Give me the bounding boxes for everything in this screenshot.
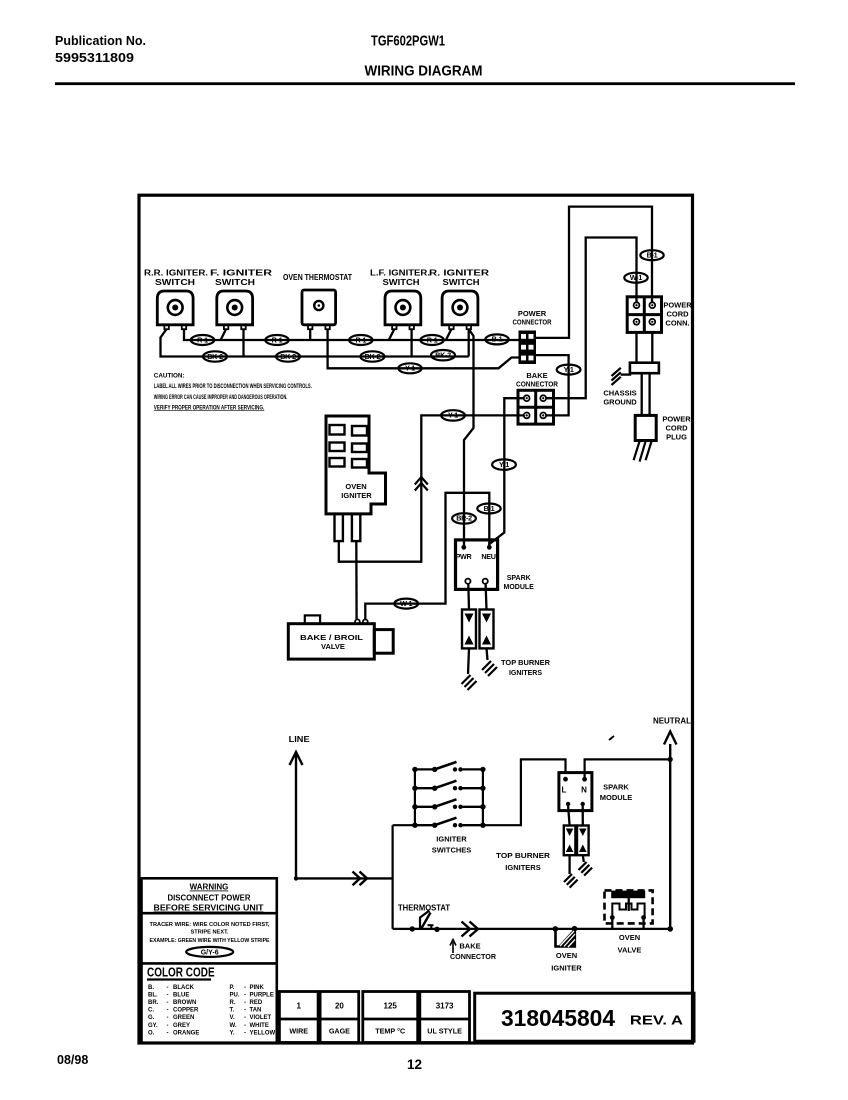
label chassis ground xyxy=(603,389,637,407)
wire igniter 2 to ground xyxy=(487,648,488,660)
spec table wire column xyxy=(279,992,318,1043)
svg-text:SWITCH: SWITCH xyxy=(383,278,420,287)
spec table temp column xyxy=(363,992,418,1043)
ground symbol 3 xyxy=(564,874,578,888)
svg-text:LABEL ALL WIRES PRIOR TO DISCO: LABEL ALL WIRES PRIOR TO DISCONNECTION W… xyxy=(154,383,312,390)
svg-text:125: 125 xyxy=(384,1002,398,1011)
svg-text:VERIFY PROPER OPERATION AFTER: VERIFY PROPER OPERATION AFTER SERVICING. xyxy=(154,404,265,411)
svg-text:PLUG: PLUG xyxy=(666,433,687,442)
svg-text:NEUTRAL: NEUTRAL xyxy=(653,717,691,726)
part number box 318045804 REV A xyxy=(475,993,694,1041)
svg-text:B.: B. xyxy=(148,985,154,991)
spark module U1 xyxy=(456,540,498,590)
svg-text:IGNITER: IGNITER xyxy=(436,835,467,844)
svg-text:TGF602PGW1: TGF602PGW1 xyxy=(371,33,445,50)
svg-text:Y-1: Y-1 xyxy=(448,411,458,420)
svg-text:W-1: W-1 xyxy=(630,273,642,282)
svg-text:POWER: POWER xyxy=(663,301,692,310)
igniter switch ladder right rail xyxy=(482,769,484,825)
svg-text:-: - xyxy=(244,1015,246,1021)
label spark module lower xyxy=(600,783,633,803)
svg-text:-: - xyxy=(244,1008,246,1014)
svg-text:W.: W. xyxy=(230,1023,237,1029)
label bake connector lower xyxy=(450,942,497,962)
wire ladder to spark module L xyxy=(483,759,566,825)
wire label Y-1 xyxy=(557,365,581,375)
svg-text:W-1: W-1 xyxy=(400,599,412,608)
svg-text:BK-2: BK-2 xyxy=(207,352,223,361)
bake broil valve V1 xyxy=(288,615,393,659)
svg-text:OVEN THERMOSTAT: OVEN THERMOSTAT xyxy=(283,273,352,282)
switch S4 L.R. igniter switch xyxy=(442,291,478,329)
svg-text:BL.: BL. xyxy=(148,992,158,998)
svg-text:C.: C. xyxy=(148,1008,154,1014)
svg-text:GY.: GY. xyxy=(148,1023,158,1029)
svg-text:BR-2: BR-2 xyxy=(456,514,472,523)
wire spark module to top burner igniters xyxy=(468,584,486,610)
wire label R-1 xyxy=(265,335,288,345)
node neutral junction xyxy=(668,757,673,762)
svg-text:20: 20 xyxy=(335,1002,344,1011)
wire label W-1 xyxy=(624,273,647,283)
warning text xyxy=(154,883,264,913)
wire label Y-1 xyxy=(492,459,516,469)
svg-text:Y-1: Y-1 xyxy=(499,460,509,469)
header rule xyxy=(55,82,795,85)
svg-text:-: - xyxy=(244,992,246,998)
svg-text:GREY: GREY xyxy=(173,1023,190,1029)
svg-text:GAGE: GAGE xyxy=(329,1027,350,1036)
svg-text:Y-1: Y-1 xyxy=(405,364,415,373)
tracer example oval G/Y-6 xyxy=(186,947,233,957)
svg-text:-: - xyxy=(244,1023,246,1029)
svg-text:IGNITERS: IGNITERS xyxy=(509,670,542,677)
svg-text:-: - xyxy=(167,992,169,998)
wire thermostat left pin to row1 xyxy=(309,329,311,340)
wire valve to spark module NEU via W-1 and B-1 xyxy=(365,493,489,619)
wire row 2 black bus xyxy=(161,329,469,357)
stray mark xyxy=(609,736,614,740)
wire label W-1 xyxy=(394,599,418,609)
wire rail to ladder xyxy=(393,824,415,826)
svg-text:OVEN: OVEN xyxy=(619,933,640,942)
svg-text:SPARK: SPARK xyxy=(603,783,629,792)
wire oven igniter to bake broil valve xyxy=(355,541,358,619)
wire S2 left pin to row1 xyxy=(221,329,227,340)
top burner igniter electrode 2 xyxy=(480,610,494,649)
svg-text:318045804: 318045804 xyxy=(501,1005,615,1031)
spec table gage column xyxy=(320,992,359,1043)
igniter switch rung 2 xyxy=(412,781,485,791)
svg-text:ORANGE: ORANGE xyxy=(173,1030,199,1036)
igniter switch rung 3 xyxy=(412,799,485,809)
svg-text:LINE: LINE xyxy=(289,735,310,744)
svg-text:CAUTION:: CAUTION: xyxy=(154,373,185,380)
svg-text:-: - xyxy=(244,985,246,991)
wire S4 left pin to row1 xyxy=(446,329,452,340)
flow chevron on riser xyxy=(415,477,428,491)
svg-text:CONNECTOR: CONNECTOR xyxy=(516,380,559,389)
svg-text:B-1: B-1 xyxy=(647,251,658,260)
svg-text:-: - xyxy=(244,1000,246,1006)
svg-text:-: - xyxy=(167,985,169,991)
oven igniter lower hatched xyxy=(553,926,578,947)
wire line feed with chevrons xyxy=(294,872,393,886)
connector J3 bake connector xyxy=(518,390,554,424)
LINE arrow xyxy=(290,752,303,878)
svg-text:CHASSIS: CHASSIS xyxy=(603,389,636,398)
wire power cord conn down to strain relief xyxy=(637,332,653,362)
label R.F. igniter switch xyxy=(210,269,272,288)
svg-text:TEMP °C: TEMP °C xyxy=(375,1027,405,1036)
svg-text:R-1: R-1 xyxy=(197,335,208,344)
bake connector pointer xyxy=(450,940,456,954)
node bottom neutral junction xyxy=(667,926,673,932)
wire label Y-1 xyxy=(398,363,421,373)
label oven igniter lower xyxy=(551,951,582,973)
svg-text:BAKE: BAKE xyxy=(459,942,480,951)
svg-text:BLACK: BLACK xyxy=(173,985,195,991)
svg-text:SWITCH: SWITCH xyxy=(155,278,195,287)
svg-text:-: - xyxy=(167,1015,169,1021)
svg-text:BLUE: BLUE xyxy=(173,992,189,998)
svg-text:CONNECTOR: CONNECTOR xyxy=(450,952,497,961)
svg-text:V.: V. xyxy=(230,1015,235,1021)
label top burner igniters lower xyxy=(496,851,551,872)
svg-text:COLOR CODE: COLOR CODE xyxy=(147,964,215,979)
svg-text:DISCONNECT POWER: DISCONNECT POWER xyxy=(168,894,251,903)
svg-text:CORD: CORD xyxy=(666,310,689,319)
wire label BK-2 xyxy=(431,350,455,360)
wire spark module to lower igniters xyxy=(568,806,583,826)
wire label BK-2 xyxy=(276,351,300,361)
svg-text:WARNING: WARNING xyxy=(190,883,229,892)
svg-text:SWITCH: SWITCH xyxy=(215,278,255,287)
svg-text:R.R. IGNITER.: R.R. IGNITER. xyxy=(144,269,208,278)
svg-text:SPARK: SPARK xyxy=(507,575,531,582)
wire label B-1 xyxy=(477,504,500,514)
switch S3 L.F. igniter switch xyxy=(385,291,421,329)
label power cord plug xyxy=(662,415,691,442)
svg-text:-: - xyxy=(167,1008,169,1014)
svg-text:CONNECTOR: CONNECTOR xyxy=(513,318,552,327)
oven igniter body xyxy=(326,416,386,541)
svg-text:Y.: Y. xyxy=(230,1030,235,1036)
svg-text:F. IGNITER: F. IGNITER xyxy=(210,269,272,278)
svg-text:G/Y-6: G/Y-6 xyxy=(201,950,219,957)
svg-text:R-1: R-1 xyxy=(355,335,366,344)
wire label Y-1 xyxy=(441,410,465,420)
svg-text:N: N xyxy=(581,786,587,795)
svg-text:BK-2: BK-2 xyxy=(280,352,296,361)
header: publication number xyxy=(55,34,146,65)
label color code xyxy=(147,964,215,979)
svg-text:CONN.: CONN. xyxy=(665,319,689,328)
wire bake conn top-left down to spark module NEU via Y-1 xyxy=(489,398,524,547)
svg-text:VALVE: VALVE xyxy=(618,946,642,955)
svg-text:T.: T. xyxy=(230,1008,235,1014)
svg-text:VALVE: VALVE xyxy=(321,642,345,651)
wire power connector row1 right to power cord conn via B-1 xyxy=(536,207,652,338)
wire label BK-2 xyxy=(360,351,384,361)
svg-text:WHITE: WHITE xyxy=(250,1023,269,1029)
spark module U2 xyxy=(559,773,592,811)
wire bottom line run xyxy=(393,928,671,930)
svg-text:-: - xyxy=(244,1030,246,1036)
caution note text xyxy=(154,373,312,412)
svg-text:PWR: PWR xyxy=(456,552,473,561)
wire label R-1 xyxy=(420,335,443,345)
switch S2 R.F. igniter switch xyxy=(217,291,253,329)
svg-text:COPPER: COPPER xyxy=(173,1008,199,1014)
label L.F. igniter switch xyxy=(370,269,430,288)
spec table UL column xyxy=(420,992,470,1043)
switch S1 R.R. igniter switch xyxy=(157,291,193,329)
top burner igniter electrode 1 xyxy=(462,610,476,649)
wire S2 right pin to row2 xyxy=(242,329,244,357)
svg-text:5995311809: 5995311809 xyxy=(55,51,134,65)
svg-text:B-1: B-1 xyxy=(484,504,495,513)
svg-text:08/98: 08/98 xyxy=(57,1053,88,1067)
svg-text:3173: 3173 xyxy=(436,1002,454,1011)
igniter switch rung 1 xyxy=(412,762,485,772)
wire S3 left pin to row1 xyxy=(389,329,395,340)
svg-text:WIRING DIAGRAM: WIRING DIAGRAM xyxy=(365,63,483,80)
svg-text:L.F. IGNITER.: L.F. IGNITER. xyxy=(370,269,430,278)
svg-text:BK-2: BK-2 xyxy=(365,352,381,361)
label power cord conn xyxy=(663,301,692,328)
wire row 3 yellow: thermostat to power connector xyxy=(328,329,519,368)
svg-text:GREEN: GREEN xyxy=(173,1015,194,1021)
power cord plug P1 xyxy=(634,415,657,461)
wire S4 right pin down to spark module PWR xyxy=(464,329,474,547)
svg-text:PINK: PINK xyxy=(250,985,265,991)
svg-text:BAKE / BROIL: BAKE / BROIL xyxy=(300,633,364,642)
svg-text:MODULE: MODULE xyxy=(600,793,633,802)
wire power connector row3 right to bake conn via Y-1 xyxy=(536,355,569,415)
svg-text:PU.: PU. xyxy=(230,992,240,998)
oven valve V2 xyxy=(605,890,653,929)
svg-text:R.: R. xyxy=(230,1000,236,1006)
ground symbol 1 xyxy=(462,675,477,690)
svg-text:L: L xyxy=(562,786,567,795)
label top burner igniters xyxy=(501,660,550,677)
svg-text:P.: P. xyxy=(230,985,235,991)
label igniter switches xyxy=(432,835,472,855)
ground symbol 2 xyxy=(482,661,497,676)
wire igniter 3 to ground xyxy=(568,855,570,874)
header: model number xyxy=(371,33,445,50)
svg-text:RED: RED xyxy=(250,1000,263,1006)
svg-text:REV. A: REV. A xyxy=(630,1013,684,1028)
header: title WIRING DIAGRAM xyxy=(365,63,483,80)
svg-text:WIRE: WIRE xyxy=(289,1027,308,1036)
bake connector chevrons xyxy=(462,922,479,937)
svg-text:PURPLE: PURPLE xyxy=(250,992,274,998)
svg-text:NEU: NEU xyxy=(481,552,495,561)
svg-text:O.: O. xyxy=(148,1030,155,1036)
svg-text:SWITCHES: SWITCHES xyxy=(432,846,472,855)
ground symbol 4 xyxy=(579,862,593,876)
wire S4 right pin to row2 xyxy=(468,329,470,357)
svg-text:EXAMPLE: GREEN WIRE WITH YELLO: EXAMPLE: GREEN WIRE WITH YELLOW STRIPE xyxy=(150,938,270,944)
wire row 1 red bus xyxy=(184,329,519,340)
svg-text:R-1: R-1 xyxy=(272,335,283,344)
svg-text:SWITCH: SWITCH xyxy=(443,278,480,287)
svg-text:IGNITER: IGNITER xyxy=(551,964,582,973)
chassis ground symbol xyxy=(612,368,632,385)
svg-text:1: 1 xyxy=(296,1002,301,1011)
wire spark module N to neutral xyxy=(585,759,671,779)
svg-text:YELLOW: YELLOW xyxy=(250,1030,276,1036)
igniter switch ladder left rail xyxy=(414,769,416,825)
label R.R. igniter switch xyxy=(144,269,208,288)
thermostat switch TH2 xyxy=(410,911,440,933)
svg-text:Y-1: Y-1 xyxy=(564,365,574,374)
svg-text:Publication No.: Publication No. xyxy=(55,34,146,48)
wire label R-1 xyxy=(349,335,372,345)
wire bake conn bottom-left to oven igniter loop via Y-1 xyxy=(339,415,524,561)
label bake connector xyxy=(516,371,559,389)
wire label B-1 xyxy=(640,250,663,260)
svg-text:OVEN: OVEN xyxy=(345,482,366,491)
label power connector xyxy=(513,309,552,327)
connector J2 power cord conn xyxy=(627,297,661,333)
svg-text:R. IGNITER: R. IGNITER xyxy=(429,269,489,278)
svg-text:TRACER WIRE: WIRE COLOR NOTED: TRACER WIRE: WIRE COLOR NOTED FIRST, xyxy=(150,922,270,928)
svg-text:UL STYLE: UL STYLE xyxy=(427,1027,462,1036)
wire label BK-2 xyxy=(203,351,227,361)
main diagram border frame xyxy=(139,195,693,1043)
wire igniter 1 to ground xyxy=(468,648,469,674)
svg-text:OVEN: OVEN xyxy=(556,951,577,960)
power cord cable xyxy=(642,373,650,415)
connector J1 power connector xyxy=(519,331,537,365)
svg-text:BEFORE SERVICING UNIT: BEFORE SERVICING UNIT xyxy=(154,904,264,913)
svg-text:TAN: TAN xyxy=(250,1008,262,1014)
svg-text:CORD: CORD xyxy=(665,424,688,433)
igniter switch rung 4 xyxy=(412,818,485,828)
NEUTRAL arrow xyxy=(664,732,677,929)
wire bake conn top-right up-left to power cord conn via W-1 xyxy=(546,238,637,399)
wire igniter 4 to ground xyxy=(583,855,584,862)
svg-text:BK-2: BK-2 xyxy=(435,351,451,360)
svg-text:IGNITER: IGNITER xyxy=(341,491,372,500)
label spark module xyxy=(504,575,535,591)
svg-text:WIRING ERROR CAN CAUSE IMPROPE: WIRING ERROR CAN CAUSE IMPROPER AND DANG… xyxy=(154,394,288,401)
svg-text:-: - xyxy=(167,1000,169,1006)
svg-text:BROWN: BROWN xyxy=(173,1000,196,1006)
svg-text:G.: G. xyxy=(148,1015,155,1021)
svg-text:TOP BURNER: TOP BURNER xyxy=(496,851,551,860)
wire label BR-2 xyxy=(452,513,476,523)
oven thermostat TH1 xyxy=(302,290,336,329)
svg-text:POWER: POWER xyxy=(662,415,691,424)
svg-text:MODULE: MODULE xyxy=(504,584,535,591)
svg-text:STRIPE NEXT.: STRIPE NEXT. xyxy=(191,929,229,935)
svg-text:B-1: B-1 xyxy=(492,335,503,344)
svg-text:R-1: R-1 xyxy=(427,335,438,344)
svg-text:VIOLET: VIOLET xyxy=(250,1015,272,1021)
svg-text:GROUND: GROUND xyxy=(603,398,637,407)
svg-text:IGNITERS: IGNITERS xyxy=(505,863,540,872)
svg-text:BR.: BR. xyxy=(148,1000,159,1006)
top burner igniter electrode 3 xyxy=(564,826,576,856)
svg-text:-: - xyxy=(167,1023,169,1029)
wire line rail xyxy=(392,825,394,929)
strain relief block xyxy=(630,363,659,374)
wire S3 right pin to row2 xyxy=(410,329,412,357)
svg-text:12: 12 xyxy=(407,1057,422,1072)
top burner igniter electrode 4 xyxy=(577,826,589,856)
warning box frame xyxy=(142,878,277,1043)
wire label B-1 xyxy=(485,334,508,344)
tracer wire note xyxy=(150,922,270,944)
svg-text:-: - xyxy=(167,1030,169,1036)
svg-text:THERMOSTAT: THERMOSTAT xyxy=(398,904,450,913)
wire label R-1 xyxy=(191,335,214,345)
label L.R. igniter switch xyxy=(429,269,489,288)
label oven valve xyxy=(618,933,642,955)
color code table xyxy=(148,985,276,1037)
svg-text:TOP BURNER: TOP BURNER xyxy=(501,660,550,667)
